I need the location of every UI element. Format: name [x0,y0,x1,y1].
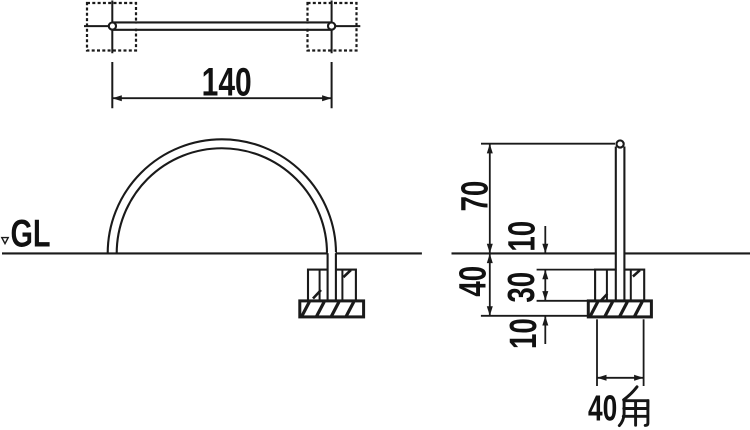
front view: base plate hatch stripes [302,302,354,317]
svg-text:70: 70 [454,181,496,212]
side view: post-top extension line [481,143,615,145]
dimension 40: line [489,253,491,315]
dimension 140: line with arrows [112,97,331,99]
front view: weld tick lower-left [313,290,321,299]
front view: anchor box inner right line [341,270,343,301]
dimension 30: bottom arrowhead [542,291,548,301]
top view: right socket box (dashed outline) [308,3,357,51]
dimension 40kaku: kanji "kaku" (square) drawn strokes [619,387,648,426]
top view: left horizontal centerline stub [84,25,108,27]
dimension 30: top arrowhead [542,270,548,280]
svg-text:10: 10 [503,318,545,349]
dimension 30: line [544,270,546,301]
side view: post left edge [615,147,617,301]
top view: crossbar bottom outline [112,29,331,31]
side view: weld tick upper-right [633,270,640,276]
dimension 10 bottom: leader line with arrowhead [544,316,546,344]
front view: ground line [2,252,422,254]
dimension 40kaku: right extension line [643,319,645,386]
side view: base plate outline [588,301,651,317]
svg-text:140: 140 [202,60,252,104]
dimension 70: top arrowhead [487,144,493,154]
dimension 140: left arrowhead [112,95,122,101]
side view: plate-top extension stub [537,300,589,302]
dimension 40: top arrowhead [487,254,493,264]
svg-text:10: 10 [501,221,543,252]
front view: arch pipe inner outline [117,148,327,253]
dimension 140: right arrowhead [322,95,332,101]
dimension 10 top: leader line with arrowhead [544,226,546,253]
top view: left socket box (dashed outline) [87,3,136,51]
svg-text:40: 40 [588,387,617,428]
top view: crossbar top outline [112,21,331,23]
side view: post (white interior) [617,146,624,301]
top view: crossbar body (white fill masking dashed edges) [112,24,331,29]
side view: anchor box inner left line [606,270,608,301]
top view: right horizontal centerline stub [336,25,360,27]
front view: pipe leg left edge [327,253,329,301]
front view: base plate outline [300,301,364,317]
dimension 40kaku: right arrowhead [634,375,644,381]
svg-text:GL: GL [10,213,50,256]
dimension 70: bottom arrowhead [487,244,493,254]
top view: left pipe end circle [109,23,116,30]
side view: plate-bottom extension line [481,315,588,317]
top view: left vertical centerline [111,1,113,109]
dimension 40kaku: left arrowhead [597,375,607,381]
side view: weld tick lower-left [601,294,607,300]
top view: right pipe end circle [328,23,335,30]
svg-text:30: 30 [501,272,543,303]
front view: pipe leg below ground (white interior) [328,252,336,301]
front view: buried anchor box outline [308,270,356,301]
side view: post top cap circle [617,140,624,147]
svg-text:40: 40 [452,266,494,297]
front view: anchor box inner left line [319,270,321,301]
front view: pipe leg right edge [335,253,337,301]
front view: arch pipe (annulus fill) [108,139,336,253]
dimension 40kaku: left extension line [596,319,598,386]
front view: arch pipe outer outline [108,139,336,253]
front view: GL level triangle marker [2,238,8,244]
dimension 40: bottom arrowhead [487,306,493,316]
side view: box-top extension stub [537,269,596,271]
front view: weld tick upper-right [343,270,351,277]
dimension 70: line [489,144,491,254]
side view: base plate hatch stripes [590,302,642,317]
side view: ground line [452,252,750,254]
side view: post right edge [623,147,625,301]
dimension 40kaku: line [597,377,644,379]
top view: right vertical centerline [331,1,333,109]
side view: anchor box inner right line [630,270,632,301]
side view: buried anchor box outline [595,270,644,301]
